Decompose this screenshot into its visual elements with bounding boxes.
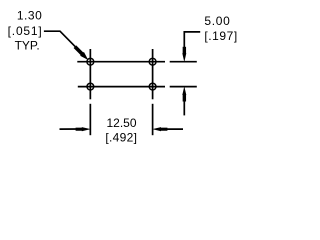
wire top extension line for 5.00 dim xyxy=(170,61,197,63)
arrowhead leader (points down-right at hole) xyxy=(80,52,88,60)
arrowhead 5.00 lower (points up) xyxy=(182,86,186,95)
svg-text:TYP.: TYP. xyxy=(15,39,40,53)
wire bottom centerline through holes xyxy=(78,86,165,88)
wire left extension line for 12.50 dim xyxy=(89,104,91,135)
wire 12.50 dimension line left tail xyxy=(60,128,83,130)
wire left vertical centerline xyxy=(89,49,91,99)
arrowhead 12.50 left (points right) xyxy=(82,127,91,131)
svg-text:[.051]: [.051] xyxy=(8,24,43,38)
arrowhead 5.00 upper (points down) xyxy=(182,53,186,62)
wire top centerline through holes xyxy=(77,61,165,63)
svg-text:[.492]: [.492] xyxy=(105,131,137,145)
hole top-left xyxy=(87,58,94,65)
wire right vertical centerline xyxy=(152,49,154,99)
hole bottom-right xyxy=(149,83,156,90)
wire leader line from 1.30 label xyxy=(44,31,81,52)
svg-text:1.30: 1.30 xyxy=(17,9,43,23)
wire 12.50 dimension line right tail xyxy=(161,128,183,130)
wire right extension line for 12.50 dim xyxy=(152,104,154,135)
svg-text:[.197]: [.197] xyxy=(204,29,237,43)
svg-text:12.50: 12.50 xyxy=(106,116,136,130)
arrowhead 12.50 right (points left) xyxy=(152,127,161,131)
hole top-right xyxy=(149,58,156,65)
hole bottom-left xyxy=(87,83,94,90)
svg-text:5.00: 5.00 xyxy=(204,14,230,28)
wire bottom extension line for 5.00 dim xyxy=(170,86,197,88)
wire 5.00 dimension line lower tail xyxy=(183,95,185,115)
wire 5.00 dimension line upper tail xyxy=(184,32,200,54)
